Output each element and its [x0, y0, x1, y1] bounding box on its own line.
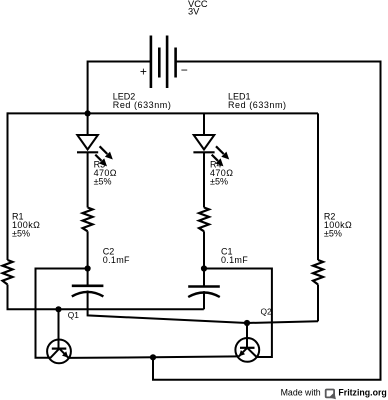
capacitor C2	[72, 286, 104, 297]
svg-text:±5%: ±5%	[12, 229, 30, 239]
R2 label	[324, 212, 352, 239]
node Q1 base junction	[55, 306, 61, 312]
node VCC-LED2 junction	[85, 110, 91, 116]
C2 label	[103, 247, 130, 266]
Fritzing footer	[281, 387, 387, 399]
LED2 light arrows	[95, 146, 112, 165]
capacitor C1	[188, 287, 220, 298]
wire C1 bottom to Q1 base line	[203, 291, 205, 309]
transistor Q1	[47, 309, 71, 363]
svg-text:Q1: Q1	[68, 310, 80, 320]
wire left rail to R1	[7, 112, 9, 260]
wire C2 bottom to Q2 base (line B)	[88, 291, 318, 324]
wire LED1 anode	[203, 113, 205, 135]
wire LED2 anode	[87, 113, 89, 135]
wire R2 bottom to Q2 base line	[317, 285, 319, 322]
svg-text:Fritzing.org: Fritzing.org	[338, 387, 386, 397]
svg-text:Red (633nm): Red (633nm)	[228, 100, 287, 110]
R3 label	[94, 160, 117, 187]
VCC label	[188, 0, 208, 16]
svg-text:±5%: ±5%	[210, 177, 228, 187]
wire Q2 collector loop	[204, 269, 272, 358]
C1 label	[221, 247, 248, 266]
wire LED1 cathode to R4	[203, 152, 205, 207]
svg-text:±5%: ±5%	[324, 229, 342, 239]
LED LED1	[193, 135, 214, 152]
svg-text:0.1mF: 0.1mF	[103, 255, 130, 265]
node R4-C1 junction	[201, 265, 207, 271]
R1 label	[12, 212, 40, 239]
svg-text:−: −	[181, 63, 188, 77]
LED LED2	[77, 135, 98, 152]
svg-text:Made with: Made with	[281, 387, 321, 397]
resistor R1	[3, 260, 13, 285]
transistor Q2	[235, 323, 259, 362]
svg-text:0.1mF: 0.1mF	[221, 255, 248, 265]
wire battery positive to VCC rail	[88, 62, 151, 114]
wire R4 to C1 node	[203, 231, 205, 286]
wire R3 to C2 node	[87, 231, 89, 285]
wire battery negative right rail down and bottom to emitter junction	[153, 62, 381, 380]
resistor R3	[83, 208, 93, 232]
svg-text:+: +	[140, 64, 147, 78]
wire emitter line Q1 to Q2	[68, 356, 239, 358]
node R3-C2 junction	[85, 265, 91, 271]
LED2 label	[113, 91, 172, 110]
svg-text:Red (633nm): Red (633nm)	[113, 100, 172, 110]
wire Q1 collector loop	[36, 269, 88, 358]
wire R2 branch from rail	[317, 113, 319, 260]
svg-text:Q2: Q2	[261, 307, 273, 317]
svg-text:±5%: ±5%	[94, 177, 112, 187]
wire R1 bottom to Q1 base line	[8, 285, 204, 310]
LED1 light arrows	[212, 146, 229, 165]
battery BAT1	[151, 36, 176, 89]
svg-text:3V: 3V	[188, 6, 200, 16]
resistor R2	[313, 260, 323, 285]
R4 label	[210, 160, 233, 187]
resistor R4	[199, 208, 209, 232]
wire LED2 cathode to R3	[87, 152, 89, 207]
node Q2 base junction	[244, 320, 250, 326]
LED1 label	[228, 91, 287, 110]
wire VCC top rail	[8, 112, 319, 114]
node emitter-ground junction	[150, 354, 156, 360]
